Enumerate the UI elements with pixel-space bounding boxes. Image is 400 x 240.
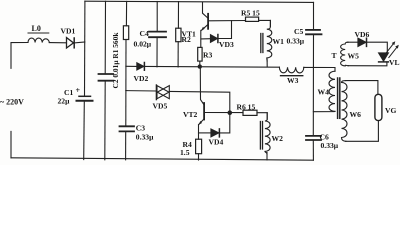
- capacitor C1: [79, 95, 91, 97]
- winding W3: [279, 67, 303, 73]
- wire: R2 rail: [177, 2, 179, 29]
- resistor R6: [243, 110, 257, 115]
- svg-text:L0: L0: [32, 24, 41, 33]
- wire: top border: [85, 1, 314, 2]
- transistor VT2 base bar: [203, 103, 205, 120]
- node: R3/mid-rail junction dot: [198, 64, 202, 68]
- svg-text:+: +: [76, 86, 81, 95]
- wire: VT1 base to R5: [209, 20, 246, 22]
- svg-text:22μ: 22μ: [58, 96, 71, 105]
- capacitor C6: [306, 135, 321, 137]
- svg-text:~ 220V: ~ 220V: [0, 98, 24, 107]
- wire: VD5 rail: [126, 90, 157, 92]
- svg-text:W1: W1: [273, 37, 285, 46]
- wire: W6 bottom to VG bottom: [346, 121, 379, 142]
- resistor R5: [246, 17, 259, 21]
- diode VD4: [211, 129, 219, 137]
- svg-text:0.33μ: 0.33μ: [287, 36, 305, 45]
- svg-text:C2 0.01μ R1 560k: C2 0.01μ R1 560k: [111, 32, 120, 89]
- resistor R4: [196, 139, 202, 154]
- svg-text:VD4: VD4: [209, 137, 224, 146]
- wire: C2 rail: [104, 1, 106, 73]
- wire: R1/C3 rail: [125, 1, 127, 25]
- svg-text:C6: C6: [320, 133, 329, 142]
- svg-text:VD1: VD1: [61, 26, 76, 35]
- svg-text:VT2: VT2: [183, 110, 198, 119]
- core bar of W3: [281, 75, 303, 77]
- wire: W4 bottom to right rail: [313, 110, 335, 112]
- core bars of W1: [260, 34, 262, 53]
- wire: VL to W5 bottom loop: [348, 62, 387, 66]
- wire: left rail (C1 in series): [84, 1, 86, 95]
- capacitor C3: [120, 125, 135, 127]
- capacitor C4: [149, 31, 166, 33]
- svg-text:VG: VG: [385, 106, 396, 115]
- svg-text:0.33μ: 0.33μ: [321, 141, 339, 150]
- svg-text:VL: VL: [389, 58, 400, 67]
- wire: bottom rail: [11, 158, 313, 160]
- wire: mid rail with VD2: [126, 65, 137, 67]
- svg-text:C3: C3: [136, 124, 145, 133]
- svg-text:1.5: 1.5: [180, 148, 190, 157]
- transistor VT2 emitter: [199, 119, 204, 124]
- svg-text:0.02μ: 0.02μ: [134, 40, 152, 49]
- winding W5: [341, 42, 349, 66]
- svg-text:T: T: [332, 51, 337, 60]
- inductor L0: [28, 38, 49, 42]
- svg-text:C4: C4: [140, 29, 149, 38]
- capacitor C2: [99, 73, 114, 75]
- transistor VT1 collector wire: [203, 2, 208, 18]
- underline of L0: [28, 32, 50, 34]
- winding W2: [265, 113, 270, 154]
- diode VD4 branch wire: [199, 132, 211, 134]
- resistor R3: [198, 47, 202, 61]
- wire: W5 top to VD6: [348, 41, 358, 43]
- diode VD3 branch wire: [201, 38, 210, 40]
- wire: W1 bottom to mid rail: [266, 59, 268, 67]
- wire: R4 to bottom rail: [198, 154, 200, 160]
- wire: AC top lead: [11, 43, 28, 69]
- wire: AC bottom lead: [10, 131, 12, 157]
- wire: VT2 emitter to R4: [198, 125, 200, 140]
- core bars of transformer T: [337, 78, 339, 118]
- svg-text:W4: W4: [318, 88, 330, 97]
- svg-text:VD5: VD5: [153, 102, 168, 111]
- wire: junction down to VT2 collector: [200, 67, 204, 105]
- resistor R2: [176, 28, 181, 42]
- wire: W2 bottom to bottom rail: [266, 153, 268, 160]
- lamp VG: [375, 94, 382, 120]
- node: base/R6/VD4 junction dot: [228, 110, 233, 115]
- svg-text:W5: W5: [348, 52, 360, 61]
- resistor R1: [123, 26, 128, 40]
- winding W6: [342, 81, 348, 142]
- wire: C4 rail: [156, 2, 158, 32]
- wire: W6 top to VG: [346, 81, 378, 95]
- core bars of W2: [259, 122, 261, 150]
- svg-text:C5: C5: [294, 27, 303, 36]
- svg-text:W6: W6: [350, 110, 362, 119]
- svg-text:0.33μ: 0.33μ: [136, 133, 154, 142]
- wire: VT1 emitter to R3: [200, 30, 202, 47]
- svg-text:VD2: VD2: [134, 74, 149, 83]
- wire: right rail (C5, C6 in series): [313, 2, 315, 29]
- winding W1: [267, 20, 272, 61]
- wire: R3 to mid-rail junction: [199, 61, 201, 66]
- diode VD6: [358, 38, 366, 46]
- LED VL: [379, 53, 389, 61]
- svg-text:VD3: VD3: [219, 40, 234, 49]
- diode VD1: [67, 38, 74, 48]
- svg-text:W3: W3: [287, 76, 299, 85]
- wire: R5 to W1: [259, 20, 271, 26]
- wire: VD6 to VL: [367, 42, 388, 53]
- wire: L0 to VD1: [49, 42, 66, 44]
- svg-text:R3: R3: [203, 51, 212, 60]
- svg-text:R5 15: R5 15: [241, 8, 260, 17]
- capacitor C5: [306, 29, 320, 31]
- diode VD2: [137, 63, 144, 70]
- winding W4: [329, 71, 335, 111]
- svg-text:VD6: VD6: [355, 30, 370, 39]
- wire: mid rail right of W3 to W4: [304, 67, 335, 71]
- wire: VD1 to left rail: [74, 41, 85, 44]
- diode VD3: [210, 35, 217, 43]
- wire: R6 to W2: [257, 113, 267, 120]
- svg-text:W2: W2: [272, 134, 284, 143]
- svg-text:R2: R2: [182, 35, 191, 44]
- diac VD5: [155, 85, 157, 100]
- LED arrows: [385, 44, 393, 54]
- transistor VT1 base bar: [207, 14, 209, 29]
- wire: VT2 base to R6: [205, 112, 243, 114]
- svg-text:R6 15: R6 15: [237, 102, 256, 111]
- transistor VT1 emitter: [202, 25, 208, 30]
